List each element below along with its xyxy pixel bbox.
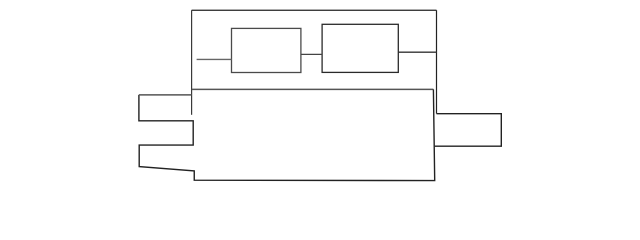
right inner block: [322, 24, 398, 72]
right tab: [435, 114, 502, 147]
wire: right vertical: [436, 10, 438, 113]
top housing rectangle (open-bottom): [192, 10, 437, 115]
wire: right lead: [398, 51, 436, 53]
left inner block: [232, 28, 301, 72]
wire: left vertical: [191, 10, 193, 115]
wire: top edge: [192, 9, 437, 11]
lower body outline with left tabs: [192, 88, 434, 90]
wire: middle connector: [301, 53, 322, 55]
wire: left lead: [197, 58, 232, 60]
wire: upper tab top edge: [139, 94, 192, 96]
